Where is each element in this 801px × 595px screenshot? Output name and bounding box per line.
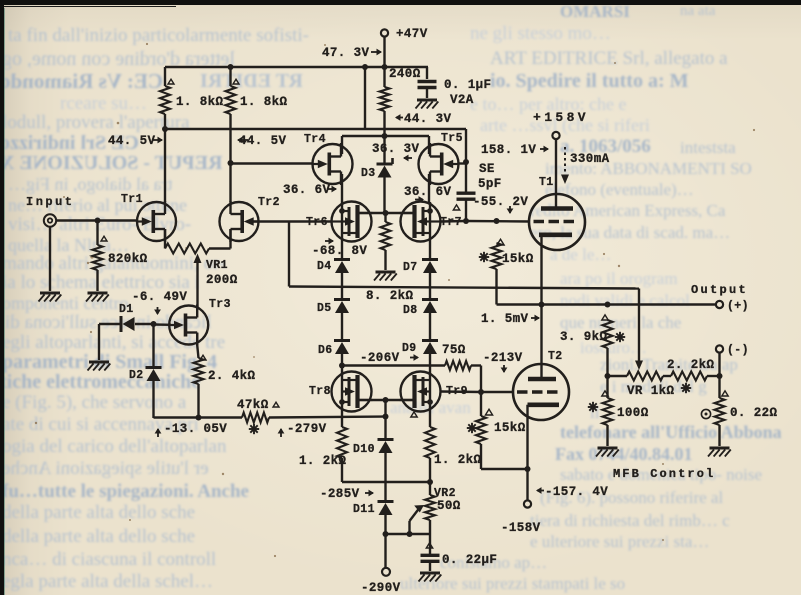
label V2A xyxy=(450,93,474,107)
label -68.8V xyxy=(312,238,367,258)
node output rail T2 xyxy=(539,302,545,308)
resistor R 1.2k right xyxy=(411,412,482,467)
wire feedback arrow xyxy=(635,361,643,371)
potentiometer VR2 50ohm xyxy=(425,482,461,534)
svg-text:VR1: VR1 xyxy=(206,259,228,272)
node -290V wiper xyxy=(383,531,389,537)
svg-text:+158V: +158V xyxy=(533,110,589,125)
node driver bias xyxy=(383,210,389,216)
svg-text:240Ω: 240Ω xyxy=(389,67,421,81)
node VR2 wiper foot xyxy=(407,531,413,537)
node 3.9k top xyxy=(605,302,611,308)
svg-text:V2A: V2A xyxy=(450,93,474,107)
paper specks xyxy=(35,43,755,557)
page frame top thin rule xyxy=(0,6,176,8)
svg-text:0. 1µF: 0. 1µF xyxy=(444,78,491,92)
transistor Tr4 xyxy=(304,133,353,185)
diode D4 xyxy=(317,260,350,274)
wire D4-D5 xyxy=(341,273,343,300)
wire Tr5 drain xyxy=(428,136,430,154)
svg-text:-68. 8V: -68. 8V xyxy=(312,244,367,258)
transistor Tr5 xyxy=(419,132,463,185)
label -213V xyxy=(483,351,523,373)
wire D6 to rail xyxy=(341,354,343,366)
transistor Tr7 xyxy=(400,202,462,242)
svg-text:Tr3: Tr3 xyxy=(209,298,231,311)
svg-text:158. 1V: 158. 1V xyxy=(481,143,536,157)
wire 820k bottom xyxy=(96,270,98,291)
svg-text:820kΩ: 820kΩ xyxy=(108,252,148,266)
diode D11 xyxy=(353,502,394,517)
wire Tr6 through xyxy=(341,202,343,260)
terminal output minus xyxy=(716,344,749,357)
potentiometer VR1 200ohm xyxy=(165,244,238,288)
wire 1.8k left top xyxy=(164,67,166,86)
label -206V xyxy=(360,351,419,365)
svg-text:+47V: +47V xyxy=(396,27,428,41)
resistor R 820k xyxy=(93,245,148,270)
label 44.5V right xyxy=(237,134,287,148)
node Tr3 gate xyxy=(151,321,157,327)
wire 47k to Tr8 node xyxy=(269,417,386,418)
ground D1 xyxy=(88,362,111,371)
label MFB Control xyxy=(613,467,715,481)
label -6.49V xyxy=(132,290,187,304)
capacitor SE 5pF xyxy=(457,162,502,199)
wire Tr2 drain column xyxy=(229,114,231,202)
wire grid node to T1 xyxy=(466,220,530,223)
diode D6 xyxy=(318,341,350,358)
svg-text:-279V: -279V xyxy=(287,422,327,436)
svg-text:2. 4kΩ: 2. 4kΩ xyxy=(208,369,256,383)
node -55.2V xyxy=(463,218,469,224)
wire D3 bottom xyxy=(383,178,385,214)
node 240ohm bottom xyxy=(382,133,388,139)
svg-text:-290V: -290V xyxy=(361,581,401,595)
svg-text:5pF: 5pF xyxy=(478,177,502,191)
wire Tr4 drain xyxy=(341,136,343,154)
label 36.6V right xyxy=(404,185,452,203)
wire minus drop xyxy=(718,353,720,398)
wire drain rail xyxy=(342,135,429,137)
svg-text:44. 5V: 44. 5V xyxy=(108,134,156,148)
svg-text:1. 2kΩ: 1. 2kΩ xyxy=(299,454,347,468)
wire +47V feed xyxy=(383,37,385,87)
label 158.1V xyxy=(481,143,549,157)
svg-text:Tr2: Tr2 xyxy=(258,196,280,209)
wire 240ohm bottom xyxy=(383,111,385,136)
svg-text:D9: D9 xyxy=(402,342,417,355)
marker delta 15k upper xyxy=(497,239,504,245)
label -55.2V xyxy=(453,195,528,214)
wire +47V rail xyxy=(165,66,428,68)
page frame top bar xyxy=(0,0,801,5)
terminal output plus xyxy=(716,300,749,313)
svg-text:D1: D1 xyxy=(119,303,134,316)
svg-text:100Ω: 100Ω xyxy=(617,406,649,420)
svg-text:0. 22Ω: 0. 22Ω xyxy=(730,406,778,420)
svg-text:15kΩ: 15kΩ xyxy=(502,252,534,266)
resistor R 1.8k left xyxy=(160,79,224,114)
diode D7 xyxy=(403,260,438,275)
svg-text:D5: D5 xyxy=(317,302,332,315)
transistor Tr6 xyxy=(306,202,373,242)
wire source link down xyxy=(384,400,386,440)
tube T1 grid xyxy=(534,220,577,223)
wire 1.8k right top xyxy=(229,67,231,86)
wire 15k lower bottom xyxy=(481,444,528,469)
resistor R 15k upper xyxy=(479,243,534,269)
page frame left tint xyxy=(4,8,5,595)
label 330mA xyxy=(561,147,610,184)
terminal +158V xyxy=(533,110,589,139)
label 36.3V xyxy=(372,142,420,161)
svg-text:15kΩ: 15kΩ xyxy=(494,421,526,435)
wire 0.22uF ground xyxy=(429,562,431,572)
diode D1 xyxy=(119,303,135,332)
wire 1.8k left bottom xyxy=(164,114,166,129)
svg-text:-6. 49V: -6. 49V xyxy=(132,290,187,304)
wire 0.22 bottom xyxy=(718,425,720,446)
wire D9 through Tr9 xyxy=(429,354,431,427)
svg-text:1. 2kΩ: 1. 2kΩ xyxy=(434,453,482,467)
resistor R 1.8k right xyxy=(226,79,288,114)
svg-text:D4: D4 xyxy=(317,260,332,273)
wire VR1 wiper xyxy=(194,254,202,308)
capacitor 0.22uF xyxy=(421,534,498,567)
svg-text:Tr8: Tr8 xyxy=(309,385,331,398)
label 1.5mV xyxy=(481,312,540,326)
ground 0.1uF xyxy=(416,100,439,109)
label Output xyxy=(691,283,748,297)
node input bias xyxy=(95,218,101,224)
wire driver drain link xyxy=(358,212,415,214)
svg-text:330mA: 330mA xyxy=(570,152,610,166)
capacitor 0.1uF xyxy=(418,67,492,92)
wire D1 cathode xyxy=(99,324,121,360)
wire 0.1uF to ground xyxy=(426,88,428,98)
wire Tr2 source down xyxy=(229,229,231,249)
connector input jack xyxy=(44,214,56,226)
tube T2 grid xyxy=(517,390,560,393)
wire cascode rail xyxy=(165,128,466,130)
node 1.2k join xyxy=(427,479,433,485)
tube T2 xyxy=(513,350,569,420)
node 15k upper top xyxy=(494,218,500,224)
svg-text:Tr5: Tr5 xyxy=(441,132,463,145)
wire feedback horizontal xyxy=(289,287,639,289)
node 1.8k right top xyxy=(228,64,234,70)
wire Tr2 gate feed xyxy=(252,220,332,222)
label -13.05V xyxy=(155,422,228,437)
page frame left bar xyxy=(0,0,4,595)
marker star 47k xyxy=(249,424,259,434)
node T2 grid xyxy=(478,389,484,395)
svg-text:36. 3V: 36. 3V xyxy=(372,142,420,156)
wire T1 cathode to output xyxy=(540,235,542,379)
svg-text:Tr6: Tr6 xyxy=(306,216,328,229)
transistor Tr8 xyxy=(309,372,373,412)
resistor R 47k xyxy=(237,398,279,423)
terminal -290V xyxy=(361,568,401,595)
node -279V junction xyxy=(383,414,389,420)
node T2 cathode 15k xyxy=(525,466,531,472)
svg-text:D2: D2 xyxy=(129,369,144,382)
tube T2 cathode xyxy=(528,402,560,407)
transistor Tr2 xyxy=(220,196,280,242)
svg-text:8. 2kΩ: 8. 2kΩ xyxy=(366,289,414,303)
wire 1.2k left bottom xyxy=(342,458,430,482)
wire divider drop xyxy=(364,67,366,129)
svg-text:36. 6V: 36. 6V xyxy=(404,185,452,199)
wire -206V rail xyxy=(342,364,445,366)
svg-text:-158V: -158V xyxy=(501,521,541,535)
svg-text:1. 8kΩ: 1. 8kΩ xyxy=(176,95,224,109)
wire Tr8 through xyxy=(341,366,343,428)
wire D7-D8 xyxy=(429,273,431,300)
ground 0.22uF xyxy=(419,573,442,582)
ground 820k xyxy=(86,293,109,302)
resistor R 2.4k xyxy=(194,355,256,384)
wire 1.2k right bottom xyxy=(429,458,431,482)
resistor R 1.2k left xyxy=(299,427,347,468)
svg-text:200Ω: 200Ω xyxy=(206,273,238,287)
svg-text:(-): (-) xyxy=(727,344,749,357)
wire Tr9 gate xyxy=(441,390,481,393)
node source link xyxy=(383,397,389,403)
wire D5-D6 xyxy=(341,313,343,341)
node Tr1 drain junction xyxy=(162,126,168,132)
wire D2 top xyxy=(152,324,154,368)
svg-text:D8: D8 xyxy=(403,304,418,317)
svg-text:Input: Input xyxy=(26,195,75,209)
svg-text:(+): (+) xyxy=(727,300,749,313)
svg-text:0. 22µF: 0. 22µF xyxy=(442,553,497,567)
svg-text:47. 3V: 47. 3V xyxy=(322,46,370,60)
svg-text:1. 5mV: 1. 5mV xyxy=(481,312,529,326)
svg-text:T1: T1 xyxy=(539,176,554,189)
diode D10 xyxy=(353,440,394,457)
wire D11 bottom xyxy=(384,515,386,568)
wire rail drop to Tr5 gate xyxy=(465,129,467,193)
wire 820k top xyxy=(98,221,108,246)
diode D3 xyxy=(361,136,393,180)
ground 0.22ohm xyxy=(708,448,731,457)
node divider top xyxy=(362,64,368,70)
svg-text:Output: Output xyxy=(691,283,748,297)
svg-text:MFB Control: MFB Control xyxy=(613,467,715,481)
wire Tr5 source down xyxy=(428,174,430,202)
node Tr4 gate tap xyxy=(228,160,234,166)
wire Tr7 through xyxy=(429,202,431,260)
diode D9 xyxy=(402,341,438,356)
tube T1 cathode xyxy=(539,233,572,238)
wire feedback to MFB pot xyxy=(638,289,640,365)
ground 8.2k xyxy=(374,272,397,281)
wire Tr8 Tr9 source link xyxy=(358,399,415,401)
wire Tr4 source down xyxy=(341,174,343,202)
wire output rail xyxy=(542,303,717,305)
node -206V rail left xyxy=(339,363,345,369)
resistor R 100 xyxy=(588,376,649,425)
wire 15k upper bottom xyxy=(497,269,542,305)
diode D2 xyxy=(129,368,162,383)
label 47.3V xyxy=(322,46,382,60)
transistor Tr9 xyxy=(400,372,441,412)
wire 2.4k bottom xyxy=(197,384,199,418)
wire 8.2k bottom xyxy=(384,250,386,270)
diode D8 xyxy=(403,300,438,318)
wire 3.9k bottom xyxy=(606,348,608,376)
wire T2 grid xyxy=(481,391,514,393)
wire T2 cathode down xyxy=(526,405,528,501)
wire D8-D9 xyxy=(429,313,431,341)
svg-text:-206V: -206V xyxy=(360,351,400,365)
wire 8.2k top xyxy=(384,213,386,222)
label -279V xyxy=(278,422,327,437)
wire 100 bottom xyxy=(606,425,608,446)
node minus tee xyxy=(717,373,723,379)
svg-text:36. 6V: 36. 6V xyxy=(283,183,331,197)
svg-text:SE: SE xyxy=(479,162,495,176)
node +47V rail junction xyxy=(382,64,388,70)
svg-text:Tr9: Tr9 xyxy=(446,385,468,398)
resistor R 2.2k xyxy=(667,358,720,381)
transistor Tr3 xyxy=(169,298,231,346)
terminal +47V xyxy=(381,27,428,41)
svg-text:44. 3V: 44. 3V xyxy=(404,112,452,126)
wire Tr4 gate xyxy=(231,162,314,164)
wire feedback vertical left xyxy=(288,222,290,287)
svg-text:D11: D11 xyxy=(353,503,375,516)
label Input xyxy=(26,195,75,209)
wire SE cap bottom xyxy=(465,200,467,222)
wire input jack ground drop xyxy=(49,227,51,291)
svg-text:-13. 05V: -13. 05V xyxy=(164,422,227,436)
ground 100ohm xyxy=(596,448,619,457)
svg-text:-213V: -213V xyxy=(483,351,523,365)
resistor R 8.2k xyxy=(366,222,414,303)
wire Tr7 gate feed xyxy=(441,220,466,223)
svg-text:50Ω: 50Ω xyxy=(437,499,461,513)
wire input to Tr1 gate xyxy=(56,219,137,221)
wire D1 to node xyxy=(135,323,154,325)
node 2.4k foot xyxy=(196,415,202,421)
wire Tr3 source xyxy=(197,333,198,358)
diode D5 xyxy=(317,300,350,316)
transistor Tr1 xyxy=(121,193,176,242)
resistor R 15k lower xyxy=(467,392,526,444)
label node arrow down xyxy=(154,307,161,315)
tube T2 plate xyxy=(528,377,556,382)
label Tr9 xyxy=(446,385,468,398)
potentiometer VR 1k xyxy=(608,372,692,399)
svg-text:44. 5V: 44. 5V xyxy=(239,134,287,148)
label 44.3V xyxy=(395,112,452,126)
label 44.5V left xyxy=(108,134,163,148)
svg-text:D6: D6 xyxy=(318,344,333,357)
marker delta 15k lower xyxy=(485,409,492,415)
wire Tr1 source down xyxy=(164,229,166,249)
svg-text:2. 2kΩ: 2. 2kΩ xyxy=(667,358,715,372)
wire D10-D11 xyxy=(384,453,386,502)
resistor 240ohm xyxy=(380,67,421,111)
label -157.4V xyxy=(536,485,608,499)
ground input xyxy=(39,293,62,302)
label -285V xyxy=(320,487,374,501)
terminal -158V xyxy=(501,500,541,535)
wire 75 to grid corner xyxy=(471,366,481,393)
wire Tr3 gate xyxy=(154,323,172,326)
wire Tr1 drain up xyxy=(164,129,166,202)
label 36.6V left xyxy=(283,183,337,197)
svg-text:-285V: -285V xyxy=(320,487,360,501)
tube T1 xyxy=(529,176,585,250)
svg-text:D10: D10 xyxy=(353,443,375,456)
wire T1 anode feed xyxy=(555,139,557,208)
svg-text:VR 1kΩ: VR 1kΩ xyxy=(627,384,675,398)
tube T1 plate xyxy=(541,206,573,211)
resistor R 3.9k xyxy=(560,315,625,348)
resistor R 75 xyxy=(442,343,471,370)
wire VR2 bottom link xyxy=(386,533,431,535)
node Tr5 gate xyxy=(463,159,469,165)
svg-text:D7: D7 xyxy=(403,261,418,274)
node 100ohm top xyxy=(605,373,611,379)
resistor R 0.22 xyxy=(701,391,777,425)
wire VR2 wiper xyxy=(410,505,425,534)
svg-text:1. 8kΩ: 1. 8kΩ xyxy=(240,95,288,109)
wire D2 bottom xyxy=(154,381,243,418)
wire Tr5 gate stub xyxy=(458,162,466,164)
svg-text:Tr1: Tr1 xyxy=(121,193,143,206)
svg-text:D3: D3 xyxy=(361,167,376,180)
svg-text:Tr4: Tr4 xyxy=(304,133,326,146)
svg-text:-157. 4V: -157. 4V xyxy=(545,485,608,499)
svg-text:-55. 2V: -55. 2V xyxy=(473,195,528,209)
svg-text:75Ω: 75Ω xyxy=(442,343,466,357)
svg-text:T2: T2 xyxy=(548,350,563,363)
